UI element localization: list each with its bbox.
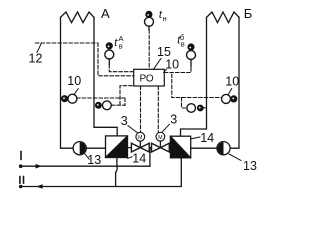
svg-text:РО: РО [139,73,153,84]
wire dashed t_n stem to controller top [148,30,150,70]
sensor t_n outdoor [145,11,154,30]
valve motor M left [136,132,145,147]
wire dashed from line 12 down to controller [98,43,134,76]
wire left mixer drop to return line (hop over line I) [116,158,118,187]
wire right valve to right mixer [169,147,170,149]
leader for label 12 [37,44,41,53]
supply line I [19,152,150,169]
wire riser A right edge down to mixer top [94,17,117,136]
svg-text:10: 10 [225,74,239,88]
svg-text:в: в [181,39,185,48]
sensor 10 inner left [95,101,111,110]
svg-text:в: в [119,42,123,51]
svg-text:10: 10 [165,57,179,71]
leader for label 3 left [128,126,137,133]
riser A building heating system [61,12,95,23]
sensor 10 on riser A supply [61,89,78,104]
svg-text:13: 13 [87,153,101,167]
valve 3 right (bowtie) [152,143,170,152]
mixer 14 left square [106,136,128,158]
svg-text:М: М [138,135,142,141]
wire dashed t_v^A stem to controller [109,65,133,72]
riser B building heating system [207,12,240,23]
wire dashed left sensors trunk to controller [120,86,134,105]
wire 12 dashed boundary line [36,42,99,44]
wire right mixer to pump [191,147,217,149]
svg-text:Б: Б [244,6,253,21]
leader for label 3 right [162,124,169,132]
leader for label 14 left [128,157,133,159]
sensor 10 inner right [187,104,204,113]
sensor t_v^B room B [187,43,196,66]
return line II [19,158,181,189]
wire pump to left mixer [86,147,105,149]
leader for label 15 [154,59,162,70]
dashed impulse lines [36,30,222,132]
wire dashed controller to t_v^B stem [164,67,191,73]
wire riser A left edge down to pump inlet [61,17,74,148]
svg-text:3: 3 [121,114,128,128]
sensor 10 on riser B supply [222,89,238,104]
wire dashed from inner left sensor [111,104,125,106]
svg-text:3: 3 [170,113,177,127]
svg-text:14: 14 [132,152,146,166]
wire between valves with supply tap [149,147,151,149]
wire riser B right edge down to pump inlet [230,17,239,148]
sensor t_v^A room A [105,42,114,64]
svg-text:н: н [163,14,167,23]
wire dashed from riser A sensor [77,98,125,105]
svg-text:10: 10 [67,74,81,88]
pump 13 right [217,142,241,161]
svg-text:М: М [158,135,162,141]
wire dashed controller to left valve motor [140,86,142,132]
mixer 14 right square [170,136,190,158]
valve motor M right [156,132,165,147]
wire dashed branch to inner right sensor [182,98,187,109]
valve 3 left (bowtie) [131,143,149,152]
svg-text:15: 15 [157,45,171,59]
wire riser B left edge down to mixer top [181,17,207,136]
leader for label 10 mid [164,69,167,72]
wire supply riser up to valves junction [149,148,151,166]
svg-text:А: А [101,6,110,21]
pump 13 left [73,142,89,160]
controller PO box [134,69,165,86]
svg-text:14: 14 [200,131,214,145]
wire left mixer to valve [128,147,132,149]
leader for label 14 right [192,137,201,139]
wire dashed controller down to right sensors trunk [172,74,222,98]
svg-text:13: 13 [243,159,257,173]
wire dashed inner right sensor to riser B [204,107,206,109]
svg-text:12: 12 [29,52,43,66]
wire dashed controller to right valve motor [157,86,159,132]
